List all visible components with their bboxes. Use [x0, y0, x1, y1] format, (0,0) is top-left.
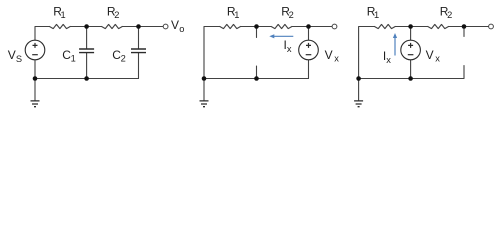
- source Vs circle: [25, 40, 45, 60]
- junction node: Vs bottom / ground, circuit 1: [33, 76, 38, 81]
- junction node: C1 bottom, circuit 1: [84, 76, 89, 81]
- svg-text:2: 2: [121, 53, 126, 63]
- resistor R1: [50, 24, 71, 28]
- wire left edge: [204, 27, 220, 79]
- svg-text:x: x: [386, 55, 391, 65]
- svg-text:V: V: [8, 48, 16, 62]
- capacitor C2 plates: [131, 49, 146, 53]
- wire bottom rail: [204, 78, 309, 80]
- junction node: ground, circuit 3: [356, 76, 361, 81]
- junction node: Vx bottom, circuit 3: [408, 76, 413, 81]
- label R1 circuit 1: [53, 5, 65, 21]
- svg-text:o: o: [179, 24, 184, 34]
- svg-text:1: 1: [234, 10, 239, 20]
- label R2 circuit 3: [440, 5, 452, 21]
- wire bottom rail: [35, 78, 139, 80]
- wire R1 to R2: [70, 26, 101, 28]
- svg-text:2: 2: [114, 10, 119, 20]
- label Vx circuit 3: [426, 48, 441, 64]
- wire Vs bottom lead: [34, 60, 36, 79]
- open port stub top right: [463, 27, 465, 37]
- capacitor C1 bottom lead: [86, 53, 88, 79]
- current arrow Ix circuit 3: [394, 36, 396, 56]
- output terminal circuit 2: [332, 24, 337, 29]
- wire R1 to R2: [396, 26, 428, 28]
- current arrow Ix circuit 2: [272, 35, 294, 37]
- Vx c3 plus sign: [408, 43, 414, 55]
- open port stub top: [256, 27, 258, 38]
- svg-text:x: x: [435, 54, 440, 64]
- source Vx circuit 2 circle: [299, 40, 319, 60]
- Vx c2 minus sign: [306, 54, 312, 56]
- svg-text:V: V: [426, 48, 434, 62]
- capacitor C2 bottom lead: [138, 53, 140, 79]
- capacitor C1 top lead: [86, 27, 88, 50]
- label R1 circuit 2: [227, 5, 239, 21]
- ground symbol circuit 3: [354, 101, 363, 107]
- svg-text:2: 2: [289, 10, 294, 20]
- open port stub bottom: [256, 66, 258, 79]
- Vx c3 minus sign: [408, 54, 414, 56]
- svg-text:S: S: [16, 54, 22, 64]
- resistor R1: [220, 24, 241, 28]
- wire R2 to output terminal: [122, 26, 163, 28]
- ground stem circuit 3: [358, 79, 360, 101]
- source Vx circuit 3 circle: [401, 40, 421, 60]
- wire R2 to terminal: [292, 26, 332, 28]
- Vx c2 plus sign: [306, 43, 312, 55]
- label R1 circuit 3: [367, 5, 379, 21]
- junction node: C1 top, circuit 1: [84, 24, 89, 29]
- junction node: port top stub, circuit 2: [254, 24, 259, 29]
- ground symbol circuit 1: [31, 101, 40, 107]
- svg-text:V: V: [171, 18, 179, 32]
- junction node: Vx top, circuit 2: [306, 24, 311, 29]
- output terminal circuit 3: [489, 24, 494, 29]
- wire R2 to terminal: [449, 26, 489, 28]
- svg-text:V: V: [325, 48, 333, 62]
- wire bottom rail: [359, 66, 464, 79]
- Vs minus sign: [32, 54, 38, 56]
- svg-text:x: x: [287, 44, 292, 54]
- resistor R2: [271, 24, 292, 28]
- wire Vx bottom lead: [308, 60, 310, 79]
- ground symbol circuit 2: [200, 101, 209, 107]
- capacitor C1 plates: [79, 49, 94, 53]
- ground stem circuit 1: [34, 79, 36, 101]
- svg-text:2: 2: [447, 10, 452, 20]
- label Vo: [171, 18, 184, 34]
- label C2: [112, 48, 125, 64]
- svg-text:1: 1: [374, 10, 379, 20]
- output terminal circuit 1: [163, 24, 168, 29]
- label R2 circuit 1: [107, 5, 119, 21]
- resistor R2: [102, 24, 123, 28]
- junction node: Vx top, circuit 3: [408, 24, 413, 29]
- resistor R1: [375, 24, 396, 28]
- junction node: ground, circuit 2: [202, 76, 207, 81]
- wire Vx bottom lead: [410, 60, 412, 79]
- resistor R2: [428, 24, 449, 28]
- label Vx circuit 2: [325, 48, 340, 64]
- junction node: port top stub, circuit 3: [462, 24, 467, 29]
- ground stem circuit 2: [203, 79, 205, 101]
- wire Vx top lead: [308, 27, 310, 41]
- label Vs: [8, 48, 22, 64]
- label R2 circuit 2: [281, 5, 293, 21]
- wire top-left segment: [35, 27, 50, 41]
- junction node: C2 top, circuit 1: [136, 24, 141, 29]
- wire R1 to R2: [240, 26, 271, 28]
- capacitor C2 top lead: [138, 27, 140, 50]
- junction node: port bottom stub, circuit 2: [254, 76, 259, 81]
- label Ix circuit 2: [284, 38, 292, 54]
- label C1: [62, 48, 75, 64]
- Vs plus sign: [32, 43, 38, 55]
- svg-text:x: x: [334, 54, 339, 64]
- svg-text:1: 1: [61, 10, 66, 20]
- svg-text:1: 1: [71, 53, 76, 63]
- wire Vx top lead: [410, 27, 412, 41]
- label Ix circuit 3: [383, 49, 391, 65]
- wire left edge: [359, 27, 375, 79]
